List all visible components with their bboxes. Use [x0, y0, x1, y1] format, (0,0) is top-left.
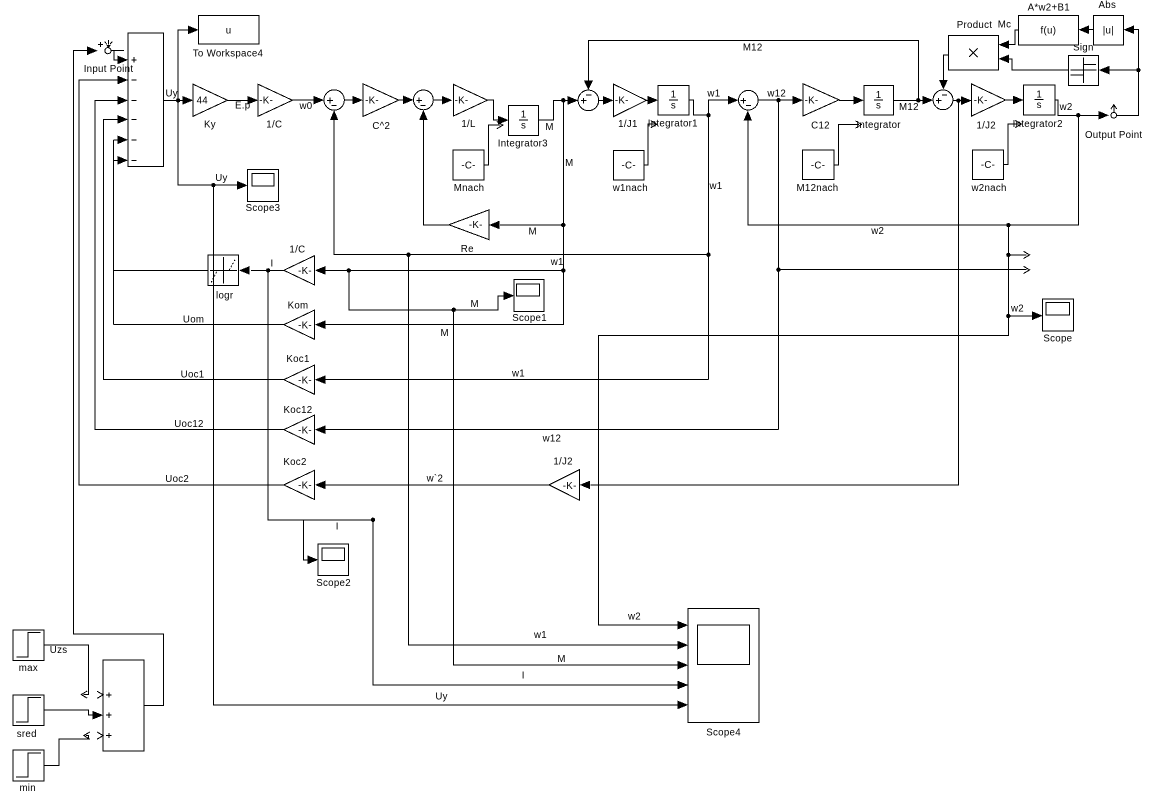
svg-text:w2nach: w2nach — [970, 183, 1006, 194]
wire Sign output to Product — [1009, 59, 1068, 70]
svg-text:-K-: -K- — [259, 96, 273, 107]
svg-text:Abs: Abs — [1099, 0, 1117, 11]
svg-text:Kom: Kom — [288, 300, 309, 311]
svg-text:logr: logr — [216, 291, 234, 302]
svg-text:To Workspace4: To Workspace4 — [193, 49, 264, 60]
wire w2 branch down to Scope4 — [598, 225, 1008, 625]
node Output Point marker — [1113, 105, 1115, 112]
wire Uzs from max (dangling) — [44, 645, 88, 694]
constant Mnach — [453, 150, 484, 180]
svg-text:1/C: 1/C — [266, 119, 282, 130]
svg-text:Scope3: Scope3 — [246, 203, 281, 214]
wire C^2 to sum2 — [399, 99, 404, 101]
wire Uom from Kom to riser — [114, 324, 284, 326]
svg-text:1/J1: 1/J1 — [618, 119, 638, 130]
constant M12nach — [803, 150, 834, 180]
wire Uy vertical over logr block — [212, 255, 214, 285]
svg-text:w1: w1 — [533, 630, 547, 641]
svg-text:Mnach: Mnach — [454, 183, 485, 194]
wire Integrator1 output — [689, 100, 709, 115]
svg-text:w0: w0 — [299, 101, 313, 112]
svg-text:Uoc1: Uoc1 — [181, 370, 205, 381]
wire Uy to Scope3 — [178, 100, 238, 185]
svg-text:1: 1 — [671, 90, 677, 101]
sum junction 3 — [578, 90, 599, 111]
node w2 dangling tap — [1006, 253, 1010, 257]
svg-text:E.p: E.p — [235, 101, 250, 112]
wire sum3 to 1/J1 — [599, 99, 604, 101]
svg-text:s: s — [876, 101, 881, 112]
gain Koc12 — [284, 415, 315, 444]
wire 1/C output to logr — [251, 269, 284, 271]
svg-text:-C-: -C- — [622, 161, 636, 172]
wire sum4 output to C12 — [758, 99, 793, 101]
step source min — [13, 750, 44, 781]
svg-text:Koc1: Koc1 — [286, 354, 309, 365]
wire M12nach dangling riser — [834, 125, 859, 165]
scope Scope3 — [248, 169, 279, 201]
svg-text:-K-: -K- — [805, 96, 819, 107]
svg-text:-K-: -K- — [974, 96, 988, 107]
wire Uoc2 from Koc2 to sum port 2 — [79, 80, 284, 485]
wire logr output to sum port 6 riser — [114, 269, 209, 271]
wire Product output to sum5 — [943, 55, 948, 80]
svg-text:-K-: -K- — [298, 320, 312, 331]
node Sign tap junction — [1136, 68, 1140, 72]
node I junction — [266, 268, 270, 272]
node w1 feedback tap — [706, 253, 710, 257]
svg-text:1/J2: 1/J2 — [976, 120, 996, 131]
svg-text:M: M — [441, 328, 449, 339]
wire sum5 output down to 1/J2 lower — [590, 101, 958, 485]
wire 1/L to Integrator3 — [487, 100, 499, 120]
wire Fcn output to Product — [1009, 30, 1018, 45]
wire 1/J1 to Integrator1 — [646, 99, 648, 101]
wire sred to subsystem port 2 — [44, 710, 93, 715]
wire w1nach dangling riser — [644, 124, 655, 165]
wire Input Point to sum port 1 — [114, 51, 119, 60]
node Uy junction — [176, 98, 180, 102]
scope Scope1 — [514, 279, 544, 311]
svg-text:w1nach: w1nach — [612, 183, 648, 194]
node Uy Scope3 junction — [211, 183, 215, 187]
wire Integrator output to sum5 — [893, 99, 923, 101]
wire w2 dangling arrow — [1008, 254, 1026, 256]
wire M vertical down to Kom — [326, 100, 564, 324]
svg-text:1/L: 1/L — [461, 119, 476, 130]
wire Ky to 1/C — [228, 99, 249, 101]
node M12 junction — [916, 98, 920, 102]
svg-text:-K-: -K- — [365, 96, 379, 107]
wire w2 feedback to sum4 — [748, 115, 1079, 225]
wire w2 to Output Point — [1072, 114, 1099, 116]
node M Scope4 branch junction — [452, 308, 456, 312]
svg-text:I: I — [522, 670, 525, 681]
wire C12 to Integrator — [839, 99, 854, 101]
wire w2 line to Scope (right) — [1008, 315, 1033, 317]
step source max — [13, 630, 44, 661]
svg-text:w2: w2 — [1059, 102, 1073, 113]
gain 1/L — [453, 84, 487, 116]
gain Re — [449, 210, 489, 240]
svg-text:Uy: Uy — [435, 692, 447, 703]
svg-text:Product: Product — [957, 20, 993, 31]
svg-text:-K-: -K- — [298, 375, 312, 386]
sum block port signs — [131, 57, 136, 62]
svg-text:C12: C12 — [811, 120, 830, 131]
svg-text:w1: w1 — [511, 369, 525, 380]
node M junction after Integrator3 — [561, 98, 565, 102]
svg-text:Koc2: Koc2 — [283, 457, 306, 468]
node Input Point marker — [105, 50, 124, 52]
sum junction 1 — [324, 90, 344, 110]
node w12 dangling tap — [776, 268, 780, 272]
scope Scope2 — [318, 544, 348, 575]
wire Uoc1 from Koc1 to sum port 4 — [103, 119, 283, 379]
svg-text:-K-: -K- — [298, 266, 312, 277]
svg-text:Scope1: Scope1 — [512, 313, 547, 324]
svg-text:s: s — [1037, 100, 1042, 111]
svg-text:w12: w12 — [766, 88, 786, 99]
svg-text:1: 1 — [1036, 89, 1042, 100]
svg-text:Uy: Uy — [215, 173, 227, 184]
svg-text:Uoc2: Uoc2 — [165, 474, 189, 485]
node M Scope1 branch junction — [347, 268, 351, 272]
svg-text:s: s — [521, 121, 526, 132]
svg-text:Integrator: Integrator — [856, 120, 901, 131]
svg-text:-K-: -K- — [455, 96, 469, 107]
node w2 junction — [1076, 113, 1080, 117]
svg-text:Ky: Ky — [204, 119, 216, 130]
svg-text:w2: w2 — [627, 612, 641, 623]
integrator Integrator2 — [1024, 85, 1055, 115]
svg-text:w1: w1 — [706, 89, 720, 100]
svg-text:Koc12: Koc12 — [284, 405, 313, 416]
gain 1/J2 (upper) — [972, 84, 1006, 116]
step source sred — [13, 695, 44, 726]
svg-text:Uy: Uy — [165, 88, 177, 99]
gain C12 — [803, 84, 839, 116]
svg-text:Integrator3: Integrator3 — [498, 138, 548, 149]
svg-text:A*w2+B1: A*w2+B1 — [1028, 2, 1070, 13]
svg-text:M12: M12 — [899, 102, 919, 113]
svg-text:min: min — [19, 783, 36, 794]
wire M down to Scope4 — [454, 310, 679, 665]
block Product — [948, 36, 998, 71]
svg-text:M: M — [565, 158, 573, 169]
svg-text:Uoc12: Uoc12 — [174, 419, 204, 430]
sum junction 5 — [933, 90, 953, 110]
svg-text:1/C: 1/C — [289, 245, 305, 256]
svg-text:-K-: -K- — [298, 425, 312, 436]
integrator Integrator1 — [658, 85, 689, 115]
svg-text:w12: w12 — [542, 433, 562, 444]
constant w1nach — [614, 150, 645, 180]
wire sum2 to 1/L — [433, 99, 442, 101]
svg-text:M12nach: M12nach — [797, 183, 839, 194]
block Sign — [1068, 55, 1098, 85]
wire min (dangling) — [44, 736, 88, 766]
wire sum5 output to 1/J2 — [953, 100, 962, 102]
svg-text:Mc: Mc — [998, 19, 1012, 30]
wire sum1 to C^2 — [344, 99, 353, 101]
wire Abs to Fcn — [1089, 29, 1093, 31]
svg-text:Re: Re — [461, 244, 474, 255]
svg-text:M: M — [545, 122, 553, 133]
svg-text:1: 1 — [876, 90, 882, 101]
gain 1/J2 (lower) — [549, 470, 580, 501]
wire feedback from subsystem output to Input Point — [74, 51, 164, 706]
svg-text:M: M — [529, 226, 537, 237]
wire w12 vertical — [777, 100, 779, 430]
node sum5 output junction — [956, 98, 960, 102]
svg-text:w2: w2 — [1010, 304, 1024, 315]
wire Uy output of sum block — [163, 99, 184, 101]
wire I branch to Scope2 — [303, 520, 308, 560]
gain 1/C (current loop) — [284, 256, 315, 285]
wire w12 line to Koc12 — [326, 429, 779, 431]
block To Workspace4 — [199, 16, 259, 45]
sum junction 4 — [739, 90, 759, 110]
gain C^2 — [363, 84, 399, 117]
wire w2 up right side to Abs — [1117, 30, 1139, 116]
svg-text:44: 44 — [197, 96, 209, 107]
svg-text:Scope: Scope — [1043, 334, 1072, 345]
wire Uy down to Scope4 — [213, 185, 678, 705]
wire w1 down to Scope4 — [409, 255, 679, 645]
svg-text:Output Point: Output Point — [1085, 130, 1142, 141]
gain Koc1 — [284, 365, 315, 394]
constant w2nach — [973, 150, 1004, 180]
wire w1 vertical — [707, 115, 709, 380]
wire w2nach dangling riser — [1004, 124, 1020, 165]
svg-text:M12: M12 — [743, 43, 763, 54]
svg-text:w`2: w`2 — [426, 473, 444, 484]
wire M branch to Scope1 — [349, 270, 505, 309]
svg-text:Uzs: Uzs — [50, 645, 68, 656]
svg-text:|u|: |u| — [1103, 26, 1114, 37]
node w2 branch junction — [1006, 223, 1010, 227]
scope Scope4 — [688, 608, 759, 722]
wire M to Re gain — [500, 224, 563, 226]
svg-text:Integrator1: Integrator1 — [648, 119, 698, 130]
svg-text:M: M — [471, 299, 479, 310]
wire w12 dangling arrow — [778, 269, 1026, 271]
svg-text:sred: sred — [17, 729, 37, 740]
integrator Integrator3 — [509, 105, 539, 135]
node w1 junction — [706, 113, 710, 117]
wire Integrator2 output w2 — [1055, 100, 1072, 115]
wire riser ports 5 and 6 — [113, 140, 115, 325]
gain 1/J1 — [614, 84, 647, 117]
svg-text:w1: w1 — [709, 181, 723, 192]
svg-text:-K-: -K- — [563, 481, 577, 492]
wire to Sign block — [1109, 69, 1138, 71]
block Abs — [1093, 16, 1123, 46]
svg-text:I: I — [271, 258, 274, 269]
wire Uoc12 from Koc12 to sum port 3 — [95, 100, 284, 429]
integrator Integrator — [864, 86, 894, 116]
svg-text:-K-: -K- — [469, 220, 483, 231]
gain Koc2 — [284, 470, 315, 499]
svg-text:Uom: Uom — [183, 314, 204, 325]
gain Kom — [284, 310, 315, 339]
node w12 junction — [776, 98, 780, 102]
node I Scope4 junction — [371, 518, 375, 522]
subsystem sum block (3 inputs) — [103, 660, 144, 751]
wire M12 feedback top — [588, 40, 918, 100]
svg-text:s: s — [671, 100, 676, 111]
svg-text:-C-: -C- — [461, 160, 475, 171]
svg-text:w2: w2 — [870, 226, 884, 237]
svg-text:Input Point: Input Point — [84, 64, 134, 75]
wire w1 line to Koc1 — [326, 379, 709, 381]
node junction on y270 line — [561, 268, 565, 272]
svg-text:C^2: C^2 — [372, 121, 390, 132]
wire Re output up to sum2 — [423, 120, 449, 225]
svg-text:I: I — [336, 522, 339, 533]
node M-Re junction — [561, 223, 565, 227]
wire w`2 from 1/J2 to Koc2 — [326, 484, 549, 486]
wire net y270 to 1/C input — [326, 269, 564, 271]
svg-text:-C-: -C- — [981, 160, 995, 171]
svg-text:-C-: -C- — [811, 160, 825, 171]
wire Mnach dangling into Integrator3 area — [484, 125, 501, 165]
gain Ky — [193, 84, 227, 116]
wire I net down from logr junction — [268, 270, 373, 519]
subsystem port chevrons and signs — [97, 691, 103, 698]
svg-text:max: max — [19, 663, 38, 674]
scope Scope — [1043, 299, 1074, 331]
svg-text:f(u): f(u) — [1041, 26, 1057, 37]
svg-text:M: M — [557, 654, 565, 665]
wire Integrator3 output to sum3 — [539, 100, 569, 120]
block logr (saturation) — [208, 255, 239, 285]
svg-text:-K-: -K- — [615, 96, 629, 107]
wire 1/C to sum1 — [292, 99, 314, 101]
block Fcn A*w2+B1 — [1019, 16, 1079, 46]
sum junction 2 — [414, 90, 434, 110]
wire w1 to sum4 — [708, 100, 728, 115]
svg-text:1/J2: 1/J2 — [553, 457, 573, 468]
node w1 feedback junction — [406, 253, 410, 257]
wire 1/J2 to Integrator2 — [1006, 99, 1014, 101]
svg-text:Scope4: Scope4 — [706, 727, 741, 738]
svg-text:u: u — [226, 25, 232, 36]
svg-text:Scope2: Scope2 — [316, 578, 351, 589]
svg-text:w1: w1 — [550, 257, 564, 268]
wire w1 feedback to sum1 — [334, 119, 708, 255]
svg-text:1: 1 — [521, 110, 527, 121]
wire Uy to To Workspace4 — [178, 30, 189, 101]
wire I down to Scope4 — [373, 520, 678, 685]
gain 1/C (forward path) — [258, 84, 292, 116]
node w2 Scope junction — [1006, 314, 1010, 318]
sum block Add (6 inputs) — [128, 33, 163, 167]
svg-text:-K-: -K- — [298, 481, 312, 492]
